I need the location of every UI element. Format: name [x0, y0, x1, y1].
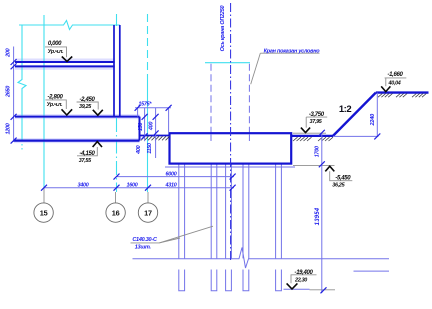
svg-text:-19,400: -19,400: [295, 270, 314, 276]
svg-text:40,04: 40,04: [388, 81, 401, 87]
svg-text:200: 200: [6, 48, 12, 57]
svg-text:С140.30-С: С140.30-С: [132, 237, 158, 243]
svg-text:-1,660: -1,660: [388, 72, 404, 78]
svg-text:13шт.: 13шт.: [135, 244, 152, 250]
svg-text:17: 17: [144, 209, 152, 218]
svg-text:1575*: 1575*: [138, 102, 152, 108]
svg-text:150: 150: [138, 123, 144, 131]
svg-text:-5,450: -5,450: [335, 176, 351, 182]
svg-text:13954: 13954: [315, 207, 321, 225]
svg-text:1600: 1600: [127, 182, 138, 188]
svg-text:36,25: 36,25: [332, 183, 345, 189]
svg-text:1700: 1700: [315, 146, 321, 157]
svg-text:2240: 2240: [370, 113, 376, 127]
svg-text:15: 15: [40, 209, 48, 218]
svg-text:Ур.ч.п.: Ур.ч.п.: [48, 49, 64, 55]
svg-text:4310: 4310: [165, 182, 177, 188]
svg-text:37,55: 37,55: [79, 158, 92, 164]
svg-text:Ось крана ОП2250: Ось крана ОП2250: [220, 5, 226, 51]
svg-text:6000: 6000: [166, 171, 177, 177]
svg-text:37,95: 37,95: [310, 119, 323, 125]
svg-text:2650: 2650: [6, 86, 12, 98]
svg-text:3400: 3400: [78, 182, 89, 188]
svg-text:39,25: 39,25: [79, 104, 92, 110]
svg-text:Ур.ч.п.: Ур.ч.п.: [47, 102, 63, 108]
svg-text:400: 400: [149, 122, 155, 131]
svg-text:1150: 1150: [147, 143, 153, 154]
svg-text:1:2: 1:2: [339, 104, 351, 115]
svg-text:0,000: 0,000: [48, 41, 62, 47]
svg-text:-4,150: -4,150: [80, 151, 96, 157]
svg-text:Кран показан условно: Кран показан условно: [264, 48, 321, 54]
svg-text:16: 16: [112, 209, 120, 218]
svg-text:-3,750: -3,750: [309, 112, 325, 118]
svg-text:400: 400: [136, 145, 142, 154]
svg-text:22,30: 22,30: [294, 278, 307, 284]
svg-text:-2,450: -2,450: [80, 97, 96, 103]
svg-text:-2,800: -2,800: [48, 95, 64, 101]
svg-text:1200: 1200: [6, 123, 12, 134]
